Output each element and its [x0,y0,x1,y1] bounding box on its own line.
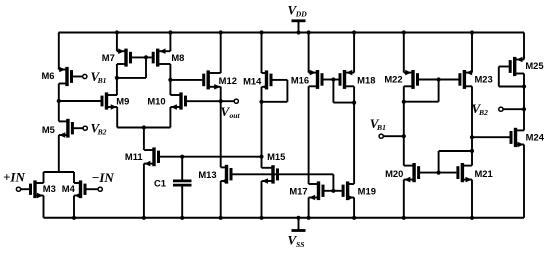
junction VSS stub on rail [296,216,300,220]
label V_out [221,104,241,120]
svg-text:M17: M17 [289,186,307,197]
junction M12 gate tap [168,78,172,82]
svg-text:M5: M5 [42,124,55,135]
junction M4 wire on VSS rail [72,216,76,220]
wire rail to M22 source [403,33,405,73]
wire M10 source down [169,107,171,128]
junction M21 diode tie [470,149,474,153]
ground VSS symbol [292,218,306,231]
transistor M6 [41,67,71,86]
svg-text:M10: M10 [147,95,165,106]
wire M6 drain to M5 top [58,84,60,122]
label V_B2 at M5 [91,121,107,137]
wire M15 source to rail [261,181,263,218]
transistor M18 [340,70,375,89]
wire M17 source to rail [308,198,310,218]
junction M22 diode tie [402,100,406,104]
wire -IN to M4 gate [86,188,98,190]
wire M14 gate lead [272,79,287,81]
junction mirror gate riser tap [331,189,335,193]
wire VB2 to M25/M24 column [503,108,524,110]
wire rail to M7 source [116,33,118,52]
wire M7 gate to M8 gate [132,56,152,58]
junction M23 source on VDD rail [470,30,474,34]
wire VDD rail (top) [59,32,525,34]
junction M7 source on VDD rail [115,30,119,34]
transistor M15 [262,151,286,184]
junction common-source tap to M11 [142,125,146,129]
wire M18 drain to M19 drain [353,86,355,184]
capacitor C1 [154,157,191,218]
transistor M19 [343,181,376,200]
junction M14 on VDD rail [259,30,263,34]
wire M14 diode loop vertical [286,80,288,102]
svg-text:M16: M16 [291,74,309,85]
wire M21 diode loop horizontal [439,150,472,152]
svg-text:M14: M14 [243,75,262,86]
wire M7 diode connection horizontal [117,77,146,79]
wire +IN to M3 gate [21,188,29,190]
junction M15 wire on VSS rail [259,216,263,220]
svg-text:M20: M20 [385,168,403,179]
wire M5 bottom to input-pair tail [58,135,60,172]
svg-text:M7: M7 [102,52,115,63]
wire rail to M12 drain [220,33,222,74]
wire M13 gate to M15 gate to M17/M19 mirror gates [232,173,333,175]
wire tail bar M3/M4 sources [44,171,75,173]
label V_SS [288,233,305,249]
svg-text:C1: C1 [154,178,166,189]
wire rail to M16 source [308,33,310,73]
wire M4 bottom to rail [73,196,75,218]
wire M20 source to rail [403,180,405,218]
svg-text:M25: M25 [525,60,543,71]
junction Vout node [219,99,223,103]
junction node M6-M5 / M9 gate tap [57,99,61,103]
wire M25 drain to M24 top [523,74,525,131]
junction M7 diode tap [115,76,119,80]
wire rail to M14 top [261,33,263,74]
transistor M5 [42,119,73,138]
wire M23 drain to M21 drain [471,86,473,165]
wire M21 source to rail [471,180,473,218]
transistor M24 [511,128,545,148]
wire M18 diode loop horizontal [333,102,354,104]
junction on M7-M8 gate line [144,55,148,59]
wire M17 gate to M19 gate [324,190,341,192]
svg-text:B2: B2 [478,108,488,117]
transistor M4 [62,180,85,198]
svg-text:+IN: +IN [3,170,25,185]
label V_B1 bias input [370,116,386,132]
wire to M9 gate [59,100,101,102]
wire M16 drain to M17 drain [308,86,310,184]
junction M16/M18 gate line tap [331,77,335,81]
node +IN terminal [16,187,20,191]
wire VB1 to M22/M20 column [383,135,403,137]
wire M14 diode loop horizontal [262,101,288,103]
wire M20 gate to M21 gate [420,172,457,174]
wire M25 gate lead [499,66,509,68]
transistor M9 [102,92,129,109]
wire M11 gate line to M14/M15 node [160,156,262,158]
wire M16 gate to M18 gate [323,79,338,81]
transistor M11 [125,147,159,166]
transistor M21 [458,163,493,182]
node VB1 terminal (right) [379,134,383,138]
wire M6 gate to VB1 terminal [73,76,83,78]
junction M12 drain on VDD rail [219,30,223,34]
svg-text:out: out [230,111,241,120]
wire M18 diode loop vertical [332,80,334,103]
junction M16 source on VDD rail [307,30,311,34]
wire M25 diode loop vertical [498,67,500,87]
wire M25 diode loop horizontal [499,86,524,88]
wire common source to M11 top [143,128,145,151]
svg-text:B1: B1 [97,76,107,85]
svg-text:M8: M8 [171,52,184,63]
wire M8 drain to M10 drain [169,64,171,95]
wire M22 diode loop horizontal [404,101,439,103]
svg-text:M22: M22 [384,73,402,84]
transistor M10 [147,92,185,109]
junction M13 wire on VSS rail [219,216,223,220]
svg-text:−IN: −IN [92,170,115,185]
wire M11 bottom to rail [143,164,145,218]
wire tail to M3 top [43,172,45,183]
wire M5 gate to VB2 terminal [74,127,83,129]
transistor M8 [153,48,184,66]
wire tail to M4 top [73,172,75,183]
svg-text:M15: M15 [267,151,285,162]
transistor M14 [243,70,271,89]
label V_B1 at M6 [91,69,107,85]
transistor M25 [510,57,543,76]
wire rail right end to M25 source [523,33,525,60]
svg-text:M6: M6 [41,70,54,81]
node VB1 terminal (M6 gate) [83,74,87,78]
wire to M12 gate [170,79,202,81]
junction M11 wire on VSS rail [142,216,146,220]
wire M7 diode connection vertical [145,57,147,78]
svg-text:DD: DD [295,10,307,19]
wire M7 drain to M9 drain [116,64,118,95]
wire VSS rail (bottom) [44,217,525,219]
svg-text:M12: M12 [219,75,237,86]
svg-text:SS: SS [296,240,304,249]
transistor M7 [102,48,131,66]
transistor M23 [460,70,493,89]
wire rail to M8 source [169,33,171,52]
label V_B2 bias input [472,101,489,117]
wire M24 gate line [472,136,510,138]
junction M20 wire on VSS rail [402,216,406,220]
wire Vout line from M10 gate to output terminal [187,100,234,102]
junction M24 gate tap [470,135,474,139]
wire gate line riser to M17/M19 gates [332,174,334,191]
junction VB2 tap [522,107,526,111]
svg-text:M18: M18 [357,74,375,85]
junction M19 wire on VSS rail [352,216,356,220]
transistor M20 [385,163,419,182]
wire M22 drain to M20 drain [403,86,405,165]
junction M11 gate line end [259,155,263,159]
node -IN terminal [98,187,102,191]
wire M22 diode loop vertical [438,80,440,102]
junction M14 diode tie [259,100,263,104]
junction VDD stub on rail [296,30,300,34]
svg-text:M21: M21 [474,168,492,179]
power VDD symbol [292,21,306,33]
wire M3 bottom to rail (left end) [43,196,45,218]
node VB2 terminal (M5 gate) [83,126,87,130]
svg-text:B2: B2 [97,128,107,137]
junction M22/M23 gate line tap [437,77,441,81]
wire M12 source down to M13 drain [220,87,222,168]
wire M19 source to rail [353,198,355,218]
junction C1 tap [180,155,184,159]
svg-text:M24: M24 [526,132,545,143]
junction M21 wire on VSS rail [470,216,474,220]
svg-text:M9: M9 [116,95,129,106]
wire M21 diode loop vertical [438,151,440,173]
wire M24 source to rail (right end) [523,145,525,218]
junction M21 diode gate tap [437,171,441,175]
node VB2 terminal (right) [499,107,503,111]
junction VB1 tap [402,134,406,138]
junction M18 diode tie [352,101,356,105]
label V_DD [288,2,308,18]
svg-text:B1: B1 [376,123,386,132]
junction M25 diode tie [522,84,526,88]
svg-text:M4: M4 [62,183,76,194]
wire rail to M18 source [353,33,355,73]
wire M13 source to rail [220,181,222,218]
transistor M12 [204,70,237,89]
wire rail to M23 source [471,33,473,73]
wire M9-M10 common source bar [117,127,170,129]
transistor M22 [384,70,417,89]
junction M17 wire on VSS rail [307,216,311,220]
svg-text:M11: M11 [125,151,143,162]
transistor M16 [291,70,322,89]
svg-text:M23: M23 [474,73,492,84]
junction C1 wire on VSS rail [180,216,184,220]
junction M8 source on VDD rail [168,30,172,34]
transistor M3 [31,180,56,198]
junction M22 source on VDD rail [402,30,406,34]
svg-text:M3: M3 [43,183,56,194]
svg-text:M13: M13 [198,169,216,180]
wire M22 gate to M23 gate [419,79,459,81]
wire M14 bottom to M15 top [261,87,263,168]
wire M9 source down [116,107,118,128]
node Vout terminal [234,99,238,103]
wire rail to M6 source [58,33,60,70]
junction M18 source on VDD rail [352,30,356,34]
transistor M13 [198,165,231,184]
transistor M17 [289,181,323,200]
svg-text:M19: M19 [358,185,376,196]
